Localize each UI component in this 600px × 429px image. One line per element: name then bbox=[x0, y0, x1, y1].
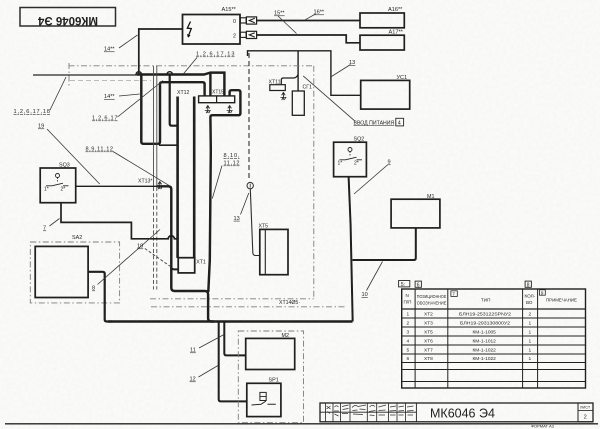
label 10 (right) bbox=[362, 262, 383, 299]
sheet number box bbox=[578, 403, 593, 422]
table row 3 XT5 bbox=[407, 330, 532, 336]
power unit A15 bbox=[183, 7, 241, 44]
label 11 bbox=[190, 335, 224, 354]
bus1 (heavy harness) bbox=[136, 73, 224, 96]
wire 11 (rail to M2) bbox=[224, 322, 245, 356]
label 16** bbox=[305, 10, 325, 21]
Pi leg to XT15 left bbox=[209, 74, 211, 96]
wire M1 down to SQ2 wire bbox=[353, 228, 416, 260]
label 1,2,6,17,13 bbox=[183, 52, 234, 75]
wire SQ3 to XT13 bbox=[76, 185, 157, 187]
label 1,2,6,17 bbox=[92, 81, 163, 122]
bottom page border bbox=[5, 423, 598, 425]
label 7 bbox=[43, 219, 60, 232]
wire 16** (A15 pin0 to A16) bbox=[257, 20, 360, 22]
wire SA2 to rail bbox=[88, 272, 112, 322]
box A16 bbox=[360, 7, 404, 28]
label 14** lower bbox=[104, 94, 140, 100]
node circle bbox=[247, 182, 253, 188]
parts table frame bbox=[402, 289, 586, 388]
label 13 (mid) bbox=[234, 193, 249, 222]
bus2 bbox=[160, 82, 205, 96]
label 15** bbox=[274, 11, 297, 34]
V2 branch into XT1 bbox=[171, 267, 178, 270]
wire 13 dashed drop bbox=[248, 53, 250, 181]
title block scribbles bbox=[327, 405, 414, 416]
label 8 bbox=[92, 230, 160, 292]
label 9 bbox=[354, 160, 391, 195]
wire V2 (XT13 junction down to rail) bbox=[157, 186, 214, 321]
rail wire (bottom harness) bbox=[108, 320, 353, 322]
faint dashed inner line bbox=[70, 80, 151, 82]
label ВВОД ПИТАНИЯ bbox=[354, 118, 404, 126]
leader ВВОД ПИТАНИЯ to node bbox=[303, 76, 355, 121]
machine dashed boundary bottom bbox=[150, 298, 314, 300]
box YC1 bbox=[361, 75, 410, 109]
parts table ref box 8 bbox=[525, 281, 531, 288]
wire 7 (SQ3 bottom) bbox=[61, 203, 177, 239]
dashed boundary second bottom bbox=[151, 306, 345, 308]
XT13 double thin lines bbox=[154, 66, 157, 290]
motor M2 bbox=[246, 333, 295, 370]
ground under XT15 right bbox=[227, 106, 233, 114]
wire 12 (rail to SP1) bbox=[219, 322, 247, 402]
connector XT1 box bbox=[178, 258, 206, 273]
harness U loop bbox=[141, 75, 160, 144]
switch SQ2 bbox=[334, 137, 367, 177]
parts table ref box 5 bbox=[399, 281, 410, 288]
wire 14** (A15 to bus) bbox=[139, 29, 183, 74]
wire 1,2,6,17,18 (thin left feeder) bbox=[33, 74, 136, 76]
label 1,2,6,17,18 bbox=[14, 77, 67, 115]
switch SP1 bbox=[247, 378, 281, 417]
label 8,10,11,12 bbox=[212, 153, 240, 199]
machine dashed boundary right bbox=[313, 66, 315, 299]
label 12 bbox=[190, 366, 219, 383]
connector XT15 bbox=[199, 90, 235, 103]
label 19 bbox=[38, 124, 100, 185]
table row 6 XT8 bbox=[407, 356, 532, 362]
motor M1 bbox=[391, 194, 440, 228]
U loop bottom extension bbox=[159, 144, 177, 146]
SA2 box bbox=[35, 235, 88, 298]
connector XT5 bbox=[259, 224, 289, 275]
table row 2 XT3 bbox=[407, 321, 532, 327]
wire 15** (A15 pin2 to A17) bbox=[257, 35, 360, 43]
table row 4 XT6 bbox=[407, 339, 532, 345]
wire circle to XT5 bbox=[250, 189, 260, 256]
machine dashed boundary left stub bbox=[68, 63, 70, 86]
table ref box 7 bbox=[451, 291, 457, 298]
M2/SP1 dashed enclosure bbox=[238, 331, 303, 423]
table row 1 XT2 bbox=[407, 312, 532, 318]
box A17 bbox=[360, 30, 404, 51]
ground at XT13 bbox=[157, 182, 163, 190]
table header texts bbox=[404, 293, 578, 306]
pin plug of output 0 bbox=[240, 17, 256, 24]
bus joint bumps bbox=[136, 72, 173, 75]
table row 5 XT7 bbox=[407, 348, 532, 354]
pin plug of output 2 bbox=[240, 31, 256, 38]
connector XT12 bars bbox=[177, 90, 194, 258]
XT15 hook wire to V3 bbox=[208, 90, 240, 292]
breaker QF1 bbox=[292, 51, 312, 116]
connector XT11 bbox=[269, 75, 299, 101]
label 13 (top) bbox=[332, 60, 356, 77]
machine dashed boundary top bbox=[69, 65, 314, 67]
title block frame bbox=[320, 403, 593, 422]
wire 13 (to YC1) bbox=[248, 51, 361, 96]
parts table ref box 6 bbox=[415, 281, 421, 288]
wire bus1 drop to XT12 bar bbox=[170, 75, 177, 126]
label 14** upper bbox=[104, 35, 138, 53]
switch SQ3 bbox=[40, 163, 75, 203]
label 10 (left) bbox=[137, 244, 171, 267]
wire 9 (SQ2 down to rail) bbox=[349, 177, 353, 322]
ground under XT15 left bbox=[205, 106, 211, 114]
table ref box 9 bbox=[540, 290, 546, 297]
switch SA2 dashed enclosure bbox=[30, 242, 119, 303]
stamp МК6046 Э4 (rotated) bbox=[20, 8, 116, 27]
label 8,9,11,12 bbox=[86, 147, 169, 186]
